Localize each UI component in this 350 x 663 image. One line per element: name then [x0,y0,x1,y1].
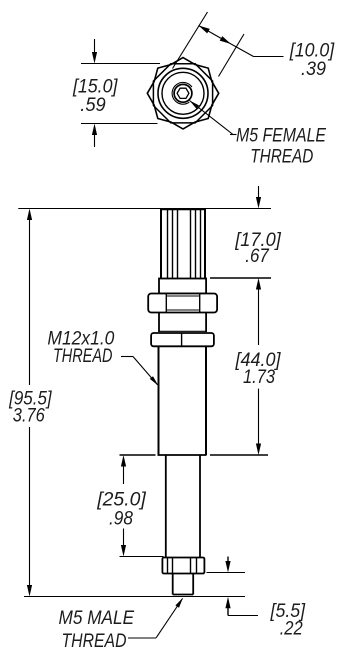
hex socket [177,88,189,98]
knurled section top (side view) [160,209,162,279]
svg-text:.39: .39 [301,59,326,80]
dimension 44.0 line [258,289,260,345]
dimension 95.5 [27,209,32,221]
dimension 10.0 extension line 1 [173,12,208,69]
svg-text:M5 MALE: M5 MALE [59,608,135,629]
svg-text:[25.0]: [25.0] [96,490,146,511]
outer circle of knurled head [158,68,208,118]
M5 tap hole circle [174,84,192,102]
main body (M12 thread) [158,346,160,455]
extension line across part top [18,208,271,210]
svg-text:1.73: 1.73 [243,367,275,388]
svg-text:THREAD: THREAD [53,346,113,367]
dimension 10.0 leader to text [231,44,254,57]
extension line body bottom right [210,454,268,456]
dimension 17.0 [258,186,260,198]
M5 male stub [172,574,174,595]
dimension 15.0 extension line bottom [81,123,158,125]
dimension 15.0 extension line top [81,63,160,65]
inner circle of knurled head [162,72,204,114]
extension line collar top [210,277,271,279]
leader M5 male thread [128,637,156,639]
svg-text:.98: .98 [109,509,133,530]
svg-text:THREAD: THREAD [250,146,313,167]
svg-text:.59: .59 [80,95,106,116]
dimension 15.0 arrows and tails [94,39,96,53]
dimension 25.0 extension lines [120,454,156,456]
svg-text:.67: .67 [245,246,270,267]
dimension 5.5 extension line hex bottom [207,572,246,574]
svg-text:THREAD: THREAD [62,631,127,652]
M5 female thread major-diameter arc (3/4) [172,82,192,104]
dimension 10.0 dimension line with arrows [199,26,232,45]
bottom knurled nut [162,558,204,574]
section between hex nuts [158,313,160,333]
leader M12x1.0 thread [121,356,133,358]
hex nut 1 [148,294,217,313]
extension line stub bottom [24,596,245,598]
hex nut 2 [151,333,214,346]
dimension 25.0 line [121,455,126,467]
knurled rosette star outline (8 spikes) [147,58,218,129]
svg-text:M5 FEMALE: M5 FEMALE [236,126,326,147]
dimension 5.5 arrows [227,557,229,562]
leader M5 female thread [190,101,234,135]
svg-text:.22: .22 [280,619,303,640]
svg-text:3.76: 3.76 [13,406,45,427]
knurl lines [168,210,201,279]
dimension 10.0 extension line 2 [219,34,245,77]
knurled rosette octagon B (rotated 22.5 deg) [153,64,212,123]
collar below knurl [159,279,206,294]
stem [165,455,167,558]
